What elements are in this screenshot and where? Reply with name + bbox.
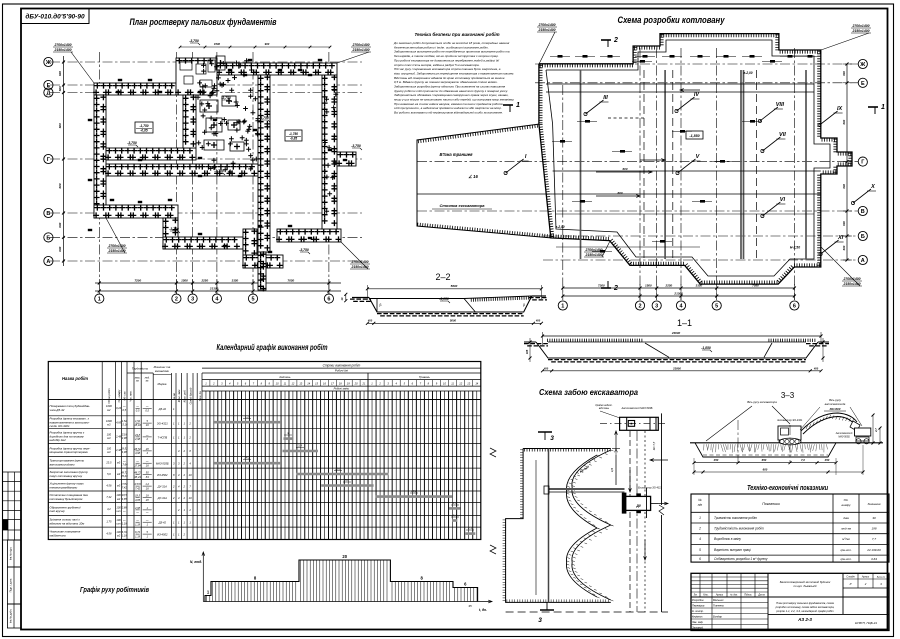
svg-text:1: 1: [561, 304, 564, 310]
svg-text:Схема розробки котловану: Схема розробки котловану: [618, 15, 726, 26]
section 3-3 axis dashdot: [737, 420, 739, 462]
svg-text:23800: 23800: [672, 366, 681, 370]
svg-text:VII: VII: [779, 132, 786, 138]
svg-text:Перевірив: Перевірив: [692, 604, 705, 608]
plan wall top-left strip: [94, 83, 176, 95]
excavation level label -1.850: [686, 131, 703, 139]
svg-text:Тривалість виконання робіт: Тривалість виконання робіт: [714, 516, 757, 520]
svg-text:2700х1400: 2700х1400: [108, 244, 126, 248]
excavation bottom axis bubbles: [558, 301, 567, 310]
plan wall step block axis2: [163, 218, 178, 249]
svg-text:ДУ-31А: ДУ-31А: [157, 496, 167, 500]
face scheme excavator symbol: [625, 496, 651, 510]
svg-text:1,52: 1,52: [122, 419, 128, 423]
svg-text:Собівартість розробки 1 м3 ґру: Собівартість розробки 1 м3 ґрунту: [714, 557, 768, 561]
svg-text:600: 600: [58, 86, 62, 91]
plan top small dimension line: [180, 46, 330, 48]
svg-text:Бондар: Бондар: [713, 615, 722, 619]
section 1-1 drawing: [524, 341, 536, 343]
plan room 2 label: [285, 130, 302, 141]
plan room 1 label: [135, 122, 153, 133]
svg-text:Н. контр.: Н. контр.: [692, 609, 704, 613]
svg-text:30: 30: [872, 516, 876, 520]
svg-text:—: —: [145, 519, 149, 522]
svg-text:2,98: 2,98: [121, 436, 128, 440]
face scheme digging arcs: [572, 450, 611, 525]
svg-text:24 199-00: 24 199-00: [866, 548, 881, 552]
section 3-3 boom and bucket: [801, 413, 857, 434]
section 1-1 dimensions: [543, 335, 822, 337]
svg-text:600: 600: [58, 71, 62, 76]
svg-text:Екскаватор ЭО-4321: Екскаватор ЭО-4321: [638, 487, 662, 490]
svg-text:6,72: 6,72: [122, 530, 128, 534]
face scheme outline: [523, 448, 611, 450]
svg-text:Вісь руху екскаватора: Вісь руху екскаватора: [747, 400, 777, 404]
left margin additional boxes upper: [3, 471, 22, 473]
svg-text:ківш опущений. Забороняється п: ківш опущений. Забороняється переміщення…: [394, 71, 514, 75]
svg-text:днів: днів: [843, 516, 849, 520]
svg-text:3350: 3350: [232, 279, 239, 283]
svg-text:—: —: [122, 510, 126, 513]
svg-text:п/п: п/п: [698, 503, 703, 507]
svg-text:100: 100: [107, 447, 112, 451]
svg-text:Назва робіт: Назва робіт: [62, 376, 88, 381]
svg-text:зм.: зм.: [145, 380, 150, 383]
svg-text:2,48: 2,48: [115, 434, 122, 438]
plan interior wall mid horizontal: [106, 164, 258, 176]
excavation grid axes dash-dot: [535, 63, 858, 65]
svg-text:Склад бригад: Склад бригад: [188, 387, 192, 404]
svg-text:по вул. Львівській: по вул. Львівській: [794, 584, 817, 588]
svg-text:3–3: 3–3: [781, 391, 795, 400]
svg-text:ДЗ-42: ДЗ-42: [158, 407, 167, 411]
svg-text:2150х1400: 2150х1400: [585, 253, 603, 257]
svg-text:2700х1400: 2700х1400: [538, 23, 556, 27]
svg-text:100: 100: [116, 493, 121, 497]
svg-text:дБУ-010.д0’5’90-90: дБУ-010.д0’5’90-90: [25, 13, 85, 21]
calendar table column lines: [101, 362, 103, 540]
svg-text:слід призупинити, а небезпечні: слід призупинити, а небезпечні предмети …: [394, 106, 502, 110]
svg-text:600: 600: [763, 468, 768, 472]
svg-text:В'їзна траншея: В'їзна траншея: [440, 152, 474, 157]
svg-text:Автосамоскид МАЗ-503Б: Автосамоскид МАЗ-503Б: [621, 406, 653, 410]
svg-text:Н-2,50: Н-2,50: [790, 246, 800, 250]
svg-text:Графік руху робітників: Графік руху робітників: [80, 585, 149, 594]
section 3-3 ground and pit: [690, 442, 883, 444]
svg-text:Трив. дн.: Трив. дн.: [198, 390, 202, 401]
svg-text:Зав. каф.: Зав. каф.: [692, 620, 704, 624]
svg-text:розробки котловану, схема забо: розробки котловану, схема забою екскават…: [775, 605, 835, 609]
svg-text:1: 1: [98, 297, 101, 303]
svg-text:ДЗ-42: ДЗ-42: [158, 521, 167, 525]
plan grid axes dash-dot: [50, 61, 362, 63]
svg-text:Всі роботи виконувати під кері: Всі роботи виконувати під керівництвом в…: [394, 111, 503, 115]
svg-text:900: 900: [265, 42, 270, 46]
face scheme truck (MAZ): [620, 417, 659, 430]
excavation pit outer edge with slope hatching: [539, 34, 852, 285]
svg-text:План ростверку пальових фундам: План ростверку пальових фундаментів: [130, 17, 277, 28]
svg-text:Затверд.: Затверд.: [692, 626, 704, 630]
svg-text:Мельник: Мельник: [713, 598, 724, 602]
svg-text:1: 1: [699, 516, 701, 520]
svg-text:600: 600: [58, 222, 62, 227]
svg-text:—: —: [145, 406, 149, 409]
svg-text:3,4: 3,4: [298, 444, 302, 448]
svg-text:котловану бульдозером: котловану бульдозером: [50, 497, 83, 501]
svg-text:ИЗ-4502: ИЗ-4502: [157, 533, 168, 537]
svg-text:автосамоскида: автосамоскида: [825, 402, 846, 406]
svg-text:Кільк. змін: Кільк. змін: [177, 389, 181, 402]
svg-text:1–1: 1–1: [677, 318, 692, 328]
plan interior wall long vertical: [258, 75, 270, 252]
svg-text:7,7: 7,7: [872, 537, 877, 541]
excavation right axis bubbles: [858, 59, 867, 68]
svg-text:1500: 1500: [181, 279, 188, 283]
svg-text:4,58: 4,58: [106, 532, 112, 536]
plan wall bottom-right strip: [277, 229, 341, 242]
svg-text:А: А: [46, 259, 50, 265]
face scheme section marks 3: [538, 431, 552, 433]
svg-text:28: 28: [145, 498, 149, 502]
svg-text:відстань: відстань: [599, 407, 610, 410]
svg-text:ЭО-4321: ЭО-4321: [157, 421, 168, 425]
svg-text:—: —: [135, 519, 139, 522]
svg-text:Робочі дні: Робочі дні: [335, 369, 348, 373]
face scheme movement dashed lines: [629, 431, 631, 612]
svg-text:2250: 2250: [200, 279, 208, 283]
svg-text:-0,85: -0,85: [290, 137, 297, 141]
svg-text:Аркушів: Аркушів: [876, 576, 886, 579]
svg-text:м3/зм: м3/зм: [842, 537, 849, 541]
svg-text:2150х1400: 2150х1400: [352, 48, 370, 52]
svg-text:Дата: Дата: [757, 594, 765, 597]
svg-text:Техніка безпеки при виконанні: Техніка безпеки при виконанні робіт: [414, 31, 499, 37]
svg-text:-3,750: -3,750: [351, 144, 361, 148]
calendar table row lines: [48, 399, 481, 401]
svg-text:24600: 24600: [671, 331, 681, 335]
svg-text:—: —: [122, 460, 126, 463]
svg-text:-3,750: -3,750: [221, 96, 231, 100]
svg-text:Б: Б: [46, 235, 50, 241]
svg-text:Стадія: Стадія: [846, 576, 855, 579]
svg-text:НУВГП, ПЦБ-41: НУВГП, ПЦБ-41: [855, 621, 878, 625]
excavation bottom dimension lines: [563, 287, 795, 289]
plan scattered pile crosses right room edges: [326, 163, 331, 168]
svg-text:1,75: 1,75: [106, 520, 112, 524]
svg-text:Rд=600: Rд=600: [830, 407, 841, 411]
svg-text:1000: 1000: [106, 404, 112, 408]
svg-text:В: В: [46, 211, 50, 217]
svg-text:1500: 1500: [214, 42, 221, 46]
svg-text:3: 3: [538, 617, 542, 624]
svg-text:600: 600: [842, 71, 846, 76]
svg-text:4,85: 4,85: [135, 498, 141, 502]
svg-text:Відстань від поверхневих відва: Відстань від поверхневих відвалів до кра…: [394, 76, 505, 80]
svg-text:X: X: [870, 184, 875, 190]
svg-text:N, люд.: N, люд.: [190, 560, 202, 564]
svg-text:м2: м2: [117, 533, 121, 537]
svg-text:—: —: [135, 460, 139, 463]
excavation scattered dimension marks: [585, 120, 590, 123]
svg-text:Ж: Ж: [45, 60, 51, 66]
calendar table outer frame: [48, 362, 481, 540]
svg-text:Е: Е: [861, 81, 865, 87]
plan stair-core inner cells: [180, 62, 192, 70]
svg-text:450: 450: [824, 458, 830, 462]
svg-text:відвозом на відстань 10м: відвозом на відстань 10м: [50, 522, 85, 526]
svg-text:-1,750: -1,750: [289, 132, 298, 136]
face scheme bottom dashed: [506, 611, 668, 613]
svg-text:6: 6: [699, 557, 701, 561]
svg-text:β: β: [380, 303, 382, 307]
face scheme long horizontal boom line: [549, 488, 625, 490]
svg-text:4,98: 4,98: [122, 450, 128, 454]
svg-text:-3,750: -3,750: [214, 169, 224, 173]
excavation pit inner (toe of slope) edge: [546, 40, 830, 276]
svg-text:—: —: [135, 511, 139, 514]
svg-text:Вартість витрат праці: Вартість витрат праці: [714, 548, 751, 552]
svg-text:t, дн.: t, дн.: [479, 608, 487, 612]
svg-text:400: 400: [543, 366, 549, 370]
svg-text:600: 600: [58, 246, 62, 251]
svg-text:2: 2: [864, 582, 867, 586]
svg-text:-3,750: -3,750: [169, 227, 179, 231]
plan bottom axis bubbles: [95, 294, 104, 303]
svg-text:7050: 7050: [752, 284, 759, 288]
svg-text:Строки виконання робіт: Строки виконання робіт: [323, 363, 361, 367]
face scheme right boundary with break: [661, 413, 663, 505]
svg-text:18,5: 18,5: [135, 494, 141, 498]
svg-text:1,2: 1,2: [453, 501, 457, 505]
svg-text:Трудомість: Трудомість: [132, 367, 149, 371]
plan middle complex walls: [200, 100, 218, 112]
svg-text:№ док.: № док.: [730, 594, 738, 597]
svg-text:21300: 21300: [209, 287, 219, 291]
svg-text:6,72: 6,72: [135, 530, 141, 534]
svg-text:-1,850: -1,850: [689, 134, 699, 138]
svg-text:-3,750: -3,750: [127, 141, 137, 145]
svg-text:без нарядів, а також особам, я: без нарядів, а також особам, які не прой…: [394, 54, 499, 58]
section 3-3 right small dims: [872, 415, 874, 443]
section 2-2 drawing: [352, 297, 369, 299]
svg-text:1,18: 1,18: [135, 522, 141, 526]
svg-text:4,85: 4,85: [122, 497, 128, 501]
title block (stamp): [691, 573, 889, 630]
plan wall mid step block: [243, 229, 257, 268]
svg-text:Зм.: Зм.: [694, 594, 698, 597]
svg-text:скиди ЭО-4321: скиди ЭО-4321: [50, 424, 70, 428]
svg-text:4,56: 4,56: [106, 484, 112, 488]
svg-text:600: 600: [842, 221, 846, 226]
svg-text:5: 5: [715, 304, 718, 310]
svg-text:2700х1400: 2700х1400: [852, 24, 870, 28]
svg-text:7,0: 7,0: [801, 458, 805, 462]
calendar gantt header: [202, 367, 481, 369]
svg-text:1000: 1000: [106, 419, 112, 423]
face scheme left break marks: [490, 448, 496, 554]
svg-text:100: 100: [116, 530, 121, 534]
svg-text:4,2: 4,2: [107, 507, 111, 511]
left margin additional boxes lower: [7, 540, 21, 567]
svg-text:600: 600: [58, 183, 62, 188]
svg-text:198: 198: [871, 527, 876, 531]
svg-text:Показники: Показники: [762, 502, 780, 506]
face scheme dimension arrows: [615, 431, 618, 449]
svg-text:Ткаченко: Ткаченко: [713, 604, 724, 608]
svg-text:2,7: 2,7: [874, 428, 878, 433]
svg-text:До земляних робіт допускаються: До земляних робіт допускаються особи не …: [393, 41, 510, 45]
svg-text:А: А: [861, 258, 865, 264]
svg-text:Rп=7,8: Rп=7,8: [652, 441, 656, 450]
calendar table header: [48, 399, 481, 401]
plan wall bottom-middle strip: [163, 237, 243, 249]
svg-text:люд-зм: люд-зм: [840, 527, 851, 531]
svg-text:в-2,00: в-2,00: [555, 225, 564, 229]
svg-text:Трудомісткість виконання робіт: Трудомісткість виконання робіт: [714, 527, 764, 531]
svg-text:400: 400: [813, 366, 819, 370]
svg-text:1,52: 1,52: [135, 419, 141, 423]
calendar gantt bars: [213, 421, 281, 424]
svg-text:1,5: 1,5: [610, 468, 614, 472]
excavation section marks 1-1: [503, 104, 513, 106]
svg-text:185: 185: [525, 349, 529, 354]
svg-text:Техніко-економічні показники: Техніко-економічні показники: [747, 484, 829, 492]
section 2-2 dimensions: [367, 288, 541, 290]
svg-text:23,5: 23,5: [105, 461, 112, 465]
svg-text:2150х1400: 2150х1400: [538, 28, 556, 32]
svg-text:2: 2: [613, 37, 618, 44]
svg-text:400: 400: [367, 319, 373, 323]
plan wall bottom strip 3: [243, 255, 283, 268]
svg-text:Квітень: Квітень: [280, 375, 291, 379]
plan interior wall room1 bottom: [106, 148, 196, 160]
svg-text:III: III: [603, 95, 608, 101]
svg-text:В: В: [861, 209, 865, 215]
svg-text:2700х1400: 2700х1400: [54, 43, 72, 47]
svg-text:6: 6: [327, 297, 330, 303]
excavation right dimension line and bubbles: [846, 64, 848, 260]
svg-text:-3,750: -3,750: [259, 116, 269, 120]
svg-text:2–2: 2–2: [435, 272, 450, 282]
svg-text:0,24: 0,24: [116, 406, 122, 410]
svg-text:м.зм: м.зм: [173, 393, 176, 399]
svg-text:650: 650: [762, 458, 767, 462]
svg-text:-1,750: -1,750: [139, 124, 148, 128]
svg-text:450: 450: [713, 458, 719, 462]
svg-text:5,6: 5,6: [107, 472, 111, 476]
svg-text:—: —: [122, 519, 126, 522]
svg-text:4,98: 4,98: [135, 451, 141, 455]
svg-text:2150х1400: 2150х1400: [852, 29, 870, 33]
svg-text:виміру: виміру: [841, 503, 851, 507]
svg-text:Т-4СПВ: Т-4СПВ: [157, 435, 167, 439]
svg-text:пазух котловану вручну: пазух котловану вручну: [50, 474, 83, 478]
svg-text:28,52: 28,52: [133, 447, 141, 451]
svg-text:28: 28: [145, 447, 149, 451]
svg-text:—: —: [135, 406, 139, 409]
svg-text:Аркуш: Аркуш: [715, 594, 723, 597]
svg-text:3: 3: [550, 435, 554, 442]
svg-text:10: 10: [189, 496, 192, 500]
svg-text:міщенням транспортерами: міщенням транспортерами: [50, 450, 89, 454]
svg-text:—: —: [122, 405, 126, 408]
svg-text:15,16: 15,16: [121, 422, 128, 426]
svg-text:7200: 7200: [134, 279, 141, 283]
svg-text:Об- сяг: Об- сяг: [123, 391, 127, 401]
svg-text:майданчика: майданчика: [50, 533, 66, 537]
svg-text:ДУ-31А: ДУ-31А: [157, 485, 167, 489]
plan elevation step labels: [190, 43, 200, 45]
svg-text:4,572: 4,572: [134, 482, 141, 486]
svg-text:2,98: 2,98: [134, 437, 141, 441]
svg-text:2: 2: [638, 304, 641, 310]
svg-text:—: —: [145, 511, 149, 514]
svg-text:3350: 3350: [696, 284, 703, 288]
svg-text:-1,850: -1,850: [701, 346, 711, 350]
top-left document code stamp: [21, 9, 89, 24]
plan scattered pile crosses middle: [234, 61, 239, 66]
svg-text:1,2: 1,2: [145, 482, 149, 486]
svg-text:2: 2: [613, 285, 618, 292]
svg-text:2150х1400: 2150х1400: [54, 48, 72, 52]
svg-text:Дд: Дд: [635, 504, 640, 508]
section 3-3 excavator: [778, 426, 801, 440]
excavation zone roman numerals with leaders: [506, 159, 524, 173]
svg-text:грн-коп.: грн-коп.: [840, 557, 852, 561]
svg-text:м3: м3: [107, 422, 111, 426]
svg-text:16,2: 16,2: [335, 467, 341, 471]
svg-text:5: 5: [251, 297, 254, 303]
svg-text:Марка: Марка: [158, 382, 167, 386]
svg-text:600: 600: [842, 245, 846, 250]
svg-text:Інв.№ дубл.: Інв.№ дубл.: [9, 609, 13, 623]
svg-text:МАЗ-503Б: МАЗ-503Б: [838, 436, 850, 439]
svg-text:м2: м2: [117, 497, 121, 501]
svg-text:2,88: 2,88: [134, 506, 141, 510]
svg-text:Значення: Значення: [867, 502, 880, 506]
svg-text:1,18: 1,18: [135, 534, 141, 538]
svg-text:∠ 16: ∠ 16: [468, 174, 478, 179]
svg-text:2250: 2250: [665, 284, 673, 288]
plan wall top-right strip: [217, 63, 337, 75]
svg-text:100: 100: [107, 433, 112, 437]
svg-text:№: №: [698, 498, 702, 502]
svg-text:28,52: 28,52: [120, 447, 128, 451]
svg-text:—: —: [145, 460, 149, 463]
svg-text:автосамоскидами: автосамоскидами: [50, 463, 75, 467]
svg-text:5000: 5000: [450, 319, 457, 323]
svg-text:20: 20: [342, 554, 347, 559]
svg-text:2: 2: [175, 297, 178, 303]
svg-text:10: 10: [189, 473, 192, 477]
svg-text:1: 1: [881, 104, 885, 111]
svg-text:3-64: 3-64: [871, 557, 877, 561]
svg-text:План ростверку пальових фундам: План ростверку пальових фундаментів, схе…: [776, 601, 834, 605]
worker graph axes: [202, 552, 205, 602]
svg-text:18,5: 18,5: [122, 493, 128, 497]
svg-text:35: 35: [468, 604, 472, 608]
svg-text:Кіль.: Кіль.: [703, 594, 709, 597]
svg-text:7,42: 7,42: [135, 486, 141, 490]
svg-text:23,8: 23,8: [134, 433, 141, 437]
svg-text:—: —: [145, 434, 149, 437]
svg-text:Чис. мех.: Чис. мех.: [129, 390, 133, 401]
svg-text:48,72: 48,72: [121, 470, 128, 474]
svg-text:Календарний графік виконання р: Календарний графік виконання робіт: [217, 343, 328, 352]
svg-text:розрізи 1-1, 2-2, 3-3, календа: розрізи 1-1, 2-2, 3-3, календарний графі…: [775, 609, 834, 613]
svg-text:600: 600: [58, 123, 62, 128]
svg-text:Схема забою екскаватора: Схема забою екскаватора: [539, 388, 639, 397]
